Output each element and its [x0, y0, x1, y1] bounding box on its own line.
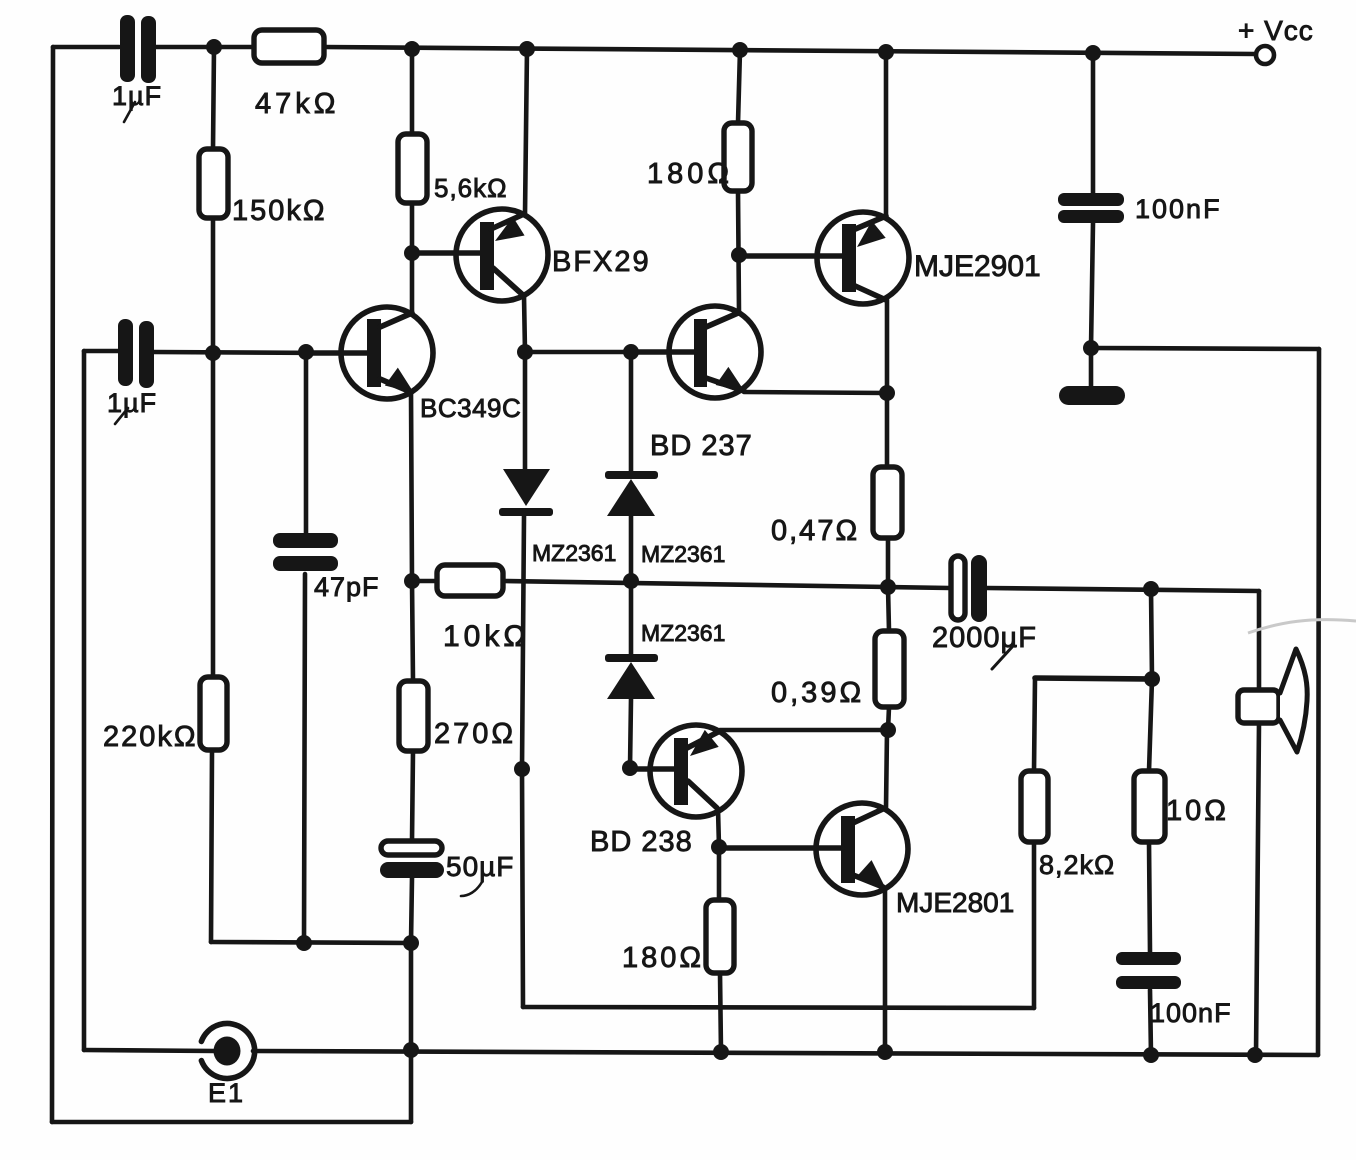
node rail-MJE2901 emitter [878, 44, 894, 60]
wire R9 bottom to lower drive node [888, 707, 889, 730]
resistor R4 180Ω upper [724, 123, 752, 191]
capacitor C4 47pF plate top [273, 533, 338, 548]
wire rail drop to C3 [1091, 53, 1096, 193]
wire y678 to speaker branch [1035, 678, 1152, 679]
node output center [880, 579, 896, 595]
svg-text:2000µF: 2000µF [932, 622, 1037, 654]
resistor R1 47kΩ [254, 30, 324, 63]
svg-text:8,2kΩ: 8,2kΩ [1039, 850, 1115, 880]
node MJE2901 base tap [731, 247, 747, 263]
wire right outer vertical [1318, 349, 1319, 1055]
transistor Q6 MJE2801 NPN [720, 803, 908, 895]
node ground rail R10 [713, 1044, 729, 1060]
wire D2 anode drop [629, 352, 634, 471]
wire bottom ground rail [253, 1051, 1318, 1055]
svg-text:50µF: 50µF [446, 851, 514, 882]
svg-text:0,39Ω: 0,39Ω [771, 677, 864, 709]
diode D3 MZ2361 [605, 654, 658, 699]
value label C1 µ tail stroke [124, 102, 135, 122]
capacitor C3 100nF plate top [1058, 193, 1124, 206]
wire node down to R8 [885, 393, 890, 467]
wire C4 bottom down [304, 574, 305, 943]
svg-text:MZ2361: MZ2361 [641, 620, 725, 646]
resistor R7 270Ω [399, 681, 428, 751]
wire rail drop to R3 [410, 49, 415, 134]
capacitor C3 100nF plate bottom [1058, 210, 1124, 223]
wire speaker bottom to ground rail [1256, 723, 1259, 1055]
wire ground node to ground bar [1089, 348, 1094, 386]
capacitor C1 1µF input top plate left [120, 15, 135, 82]
wire bottom outer horizontal [52, 1120, 411, 1125]
wire mid node down to R7 [412, 581, 413, 681]
svg-text:BFX29: BFX29 [552, 246, 651, 278]
wire output node to R9 top [888, 587, 889, 631]
svg-text:BD 237: BD 237 [650, 430, 753, 462]
node ground rail C7 [1143, 1047, 1159, 1063]
capacitor C7 100nF plate bottom [1116, 976, 1181, 989]
wire rail drop to BFX29 emitter [525, 49, 527, 214]
wire input shield vertical x84 [82, 351, 87, 1050]
wire D1 cathode down to BD238 base node [522, 516, 524, 769]
node lower drive [880, 722, 896, 738]
wire BFX29 collector to BD237 base line [524, 296, 525, 352]
wire R2 bottom down to R6 [211, 218, 216, 677]
resistor R10 180Ω lower [706, 900, 734, 973]
node driver output upper [879, 385, 895, 401]
wire mid line into R5 [412, 579, 437, 584]
node D2 tap [623, 344, 639, 360]
capacitor C1 1µF input top plate right [141, 16, 156, 83]
capacitor C5 50µF positive plate [381, 841, 442, 855]
wire rail drop to MJE2901 emitter [884, 52, 889, 216]
node speaker branch top [1143, 581, 1159, 597]
wire top supply rail between C1 and R1 [152, 45, 256, 50]
wire R7 bottom to C5 [412, 751, 413, 841]
wire top supply rail left segment [53, 45, 119, 50]
wire speaker top drop [1257, 591, 1262, 690]
wire ground node to right vertical y349 [1091, 348, 1319, 349]
resistor R2 150kΩ [199, 149, 228, 218]
node zobel branch [1144, 671, 1160, 687]
connector E1 input jack outer ring [201, 1024, 254, 1079]
wire R10 bottom to ground rail [720, 973, 721, 1052]
capacitor C6 2000µF negative plate [971, 555, 987, 622]
node BD238 base right [622, 760, 638, 776]
wire D1 anode drop [523, 352, 528, 470]
wire input node left of C2 [84, 349, 118, 354]
wire R5 to output node y581-587 [503, 581, 888, 587]
node BFX29 base tap [404, 245, 420, 261]
resistor R11 8,2kΩ [1021, 771, 1048, 842]
speaker cone [1280, 649, 1307, 752]
wire up to R11 bottom [1032, 842, 1037, 1008]
wire BD238 base node down x523 [522, 769, 523, 1007]
capacitor C7 100nF plate top [1116, 952, 1181, 965]
wire node down to R12 [1149, 679, 1152, 771]
resistor R9 0,39Ω [875, 631, 904, 707]
wire R8 bottom to output node [886, 538, 891, 587]
resistor R12 10Ω [1134, 771, 1165, 842]
svg-text:MZ2361: MZ2361 [641, 541, 725, 567]
wire node to C4 top [304, 352, 309, 533]
node feedback C4 bottom [296, 935, 312, 951]
wire R11 top up [1034, 678, 1035, 771]
wire output branch x1151 upper [1151, 589, 1152, 679]
svg-text:BD 238: BD 238 [590, 826, 693, 858]
resistor R8 0,47Ω [873, 467, 902, 538]
svg-text:47pF: 47pF [314, 572, 380, 602]
wire BD237 emitter horizontal [744, 392, 887, 393]
node BFX29 collector / D1 [517, 344, 533, 360]
wire MJE2801 emitter to ground rail [883, 888, 888, 1052]
wire R6 bottom down [211, 751, 212, 942]
wire D2 cathode to D3 [629, 516, 634, 654]
wire R12 bottom to C7 [1149, 842, 1150, 952]
node mid diode chain [623, 573, 639, 589]
transistor Q4 BD237 NPN [632, 306, 761, 401]
svg-text:MJE2901: MJE2901 [914, 250, 1041, 283]
wire C6 to speaker corner [987, 588, 1259, 591]
capacitor C2 1µF plate right [139, 321, 154, 388]
wire C2 to BC349C base node [153, 352, 330, 353]
capacitor C5 50µF negative plate [380, 862, 444, 878]
ground [1059, 386, 1125, 405]
svg-text:180Ω: 180Ω [622, 942, 704, 974]
node input R2 tap [205, 345, 221, 361]
wire R2 drop from rail [213, 47, 214, 149]
node rail-BFX29 emitter [519, 41, 535, 57]
resistor R5 10kΩ [437, 565, 503, 596]
svg-text:100nF: 100nF [1135, 194, 1222, 224]
node rail-R4 [732, 42, 748, 58]
svg-text:10Ω: 10Ω [1166, 795, 1229, 827]
transistor Q3 MJE2901 PNP [740, 212, 909, 304]
wire node down to R10 [717, 847, 722, 900]
node rail-R2 [206, 39, 222, 55]
node rail-R3 [404, 41, 420, 57]
wire BD238 collector down [718, 809, 719, 847]
node ground rail x411 [403, 1042, 419, 1058]
value label C6 slash stroke [992, 646, 1013, 669]
wire R3 bottom to BC349C collector [410, 203, 415, 313]
svg-text:E1: E1 [208, 1078, 245, 1108]
wire top supply rail to +Vcc [323, 47, 1256, 54]
wire C7 bottom to ground rail [1150, 990, 1151, 1055]
resistor R6 220kΩ [200, 677, 227, 750]
node mid feedback left [404, 573, 420, 589]
speaker driver body [1238, 690, 1279, 723]
node feedback C5 bottom [403, 935, 419, 951]
transistor Q2 BC349C NPN [307, 307, 433, 402]
svg-text:BC349C: BC349C [420, 393, 521, 423]
svg-text:10kΩ: 10kΩ [443, 620, 530, 653]
capacitor C6 2000µF positive plate [951, 556, 965, 620]
svg-text:+ Vcc: + Vcc [1238, 15, 1314, 46]
scan crease artifact [1248, 620, 1356, 633]
wire MJE2801 collector up to node [886, 731, 887, 808]
capacitor C2 1µF plate left [118, 319, 133, 386]
wire E1 left lead [84, 1050, 215, 1051]
wire bootstrap horizontal y1008 [523, 1007, 1034, 1008]
wire D3 cathode down to BD238 base node [630, 699, 631, 768]
value label C5 µ tail stroke [461, 882, 482, 896]
transistor Q1 BFX29 PNP [413, 209, 548, 301]
diode D1 MZ2361 [499, 469, 553, 516]
wire rail drop to R4 [738, 50, 740, 123]
wire C5 bottom down [411, 878, 412, 943]
node input C4 tap [298, 344, 314, 360]
wire output node to C6 [888, 587, 950, 588]
wire C3 bottom to ground node [1091, 223, 1093, 348]
wire left outer vertical [52, 47, 53, 1122]
node rail-C3 [1085, 45, 1101, 61]
node ground rail MJE2801 [877, 1044, 893, 1060]
svg-text:1µF: 1µF [107, 388, 157, 418]
svg-text:220kΩ: 220kΩ [103, 721, 198, 753]
svg-text:150kΩ: 150kΩ [232, 195, 327, 227]
node ground rail speaker [1247, 1047, 1263, 1063]
svg-text:47kΩ: 47kΩ [255, 88, 339, 120]
capacitor C4 47pF plate bottom [273, 556, 338, 571]
wire MJE2901 collector down to node [885, 300, 890, 393]
node BD238 collector [711, 839, 727, 855]
svg-text:0,47Ω: 0,47Ω [771, 515, 859, 547]
wire BC349C emitter down to mid node [411, 392, 412, 581]
svg-text:180Ω: 180Ω [647, 158, 733, 190]
svg-text:5,6kΩ: 5,6kΩ [434, 173, 508, 203]
svg-text:MJE2801: MJE2801 [896, 887, 1014, 918]
svg-text:270Ω: 270Ω [434, 718, 516, 750]
value label C2 µ tail stroke [115, 408, 128, 424]
wire R4 bottom to BD237 collector [738, 191, 739, 313]
wire y352 BFX29 collector node to BD237 base [525, 350, 695, 355]
svg-text:MZ2361: MZ2361 [532, 540, 616, 566]
connector E1 input jack center pin [214, 1037, 241, 1066]
node C3 ground junction [1083, 340, 1099, 356]
svg-text:1µF: 1µF [112, 81, 162, 111]
resistor R3 5,6kΩ [398, 134, 427, 203]
svg-text:100nF: 100nF [1150, 998, 1232, 1028]
terminal +Vcc [1256, 46, 1274, 64]
wire x411 vertical to bottom [409, 943, 414, 1122]
wire BD238 emitter horizontal y730 [720, 728, 888, 733]
wire bottom feedback horizontal y943 [211, 942, 411, 943]
diode D2 MZ2361 [605, 471, 658, 516]
transistor Q5 BD238 PNP [631, 725, 742, 817]
node BD238 base left [514, 761, 530, 777]
